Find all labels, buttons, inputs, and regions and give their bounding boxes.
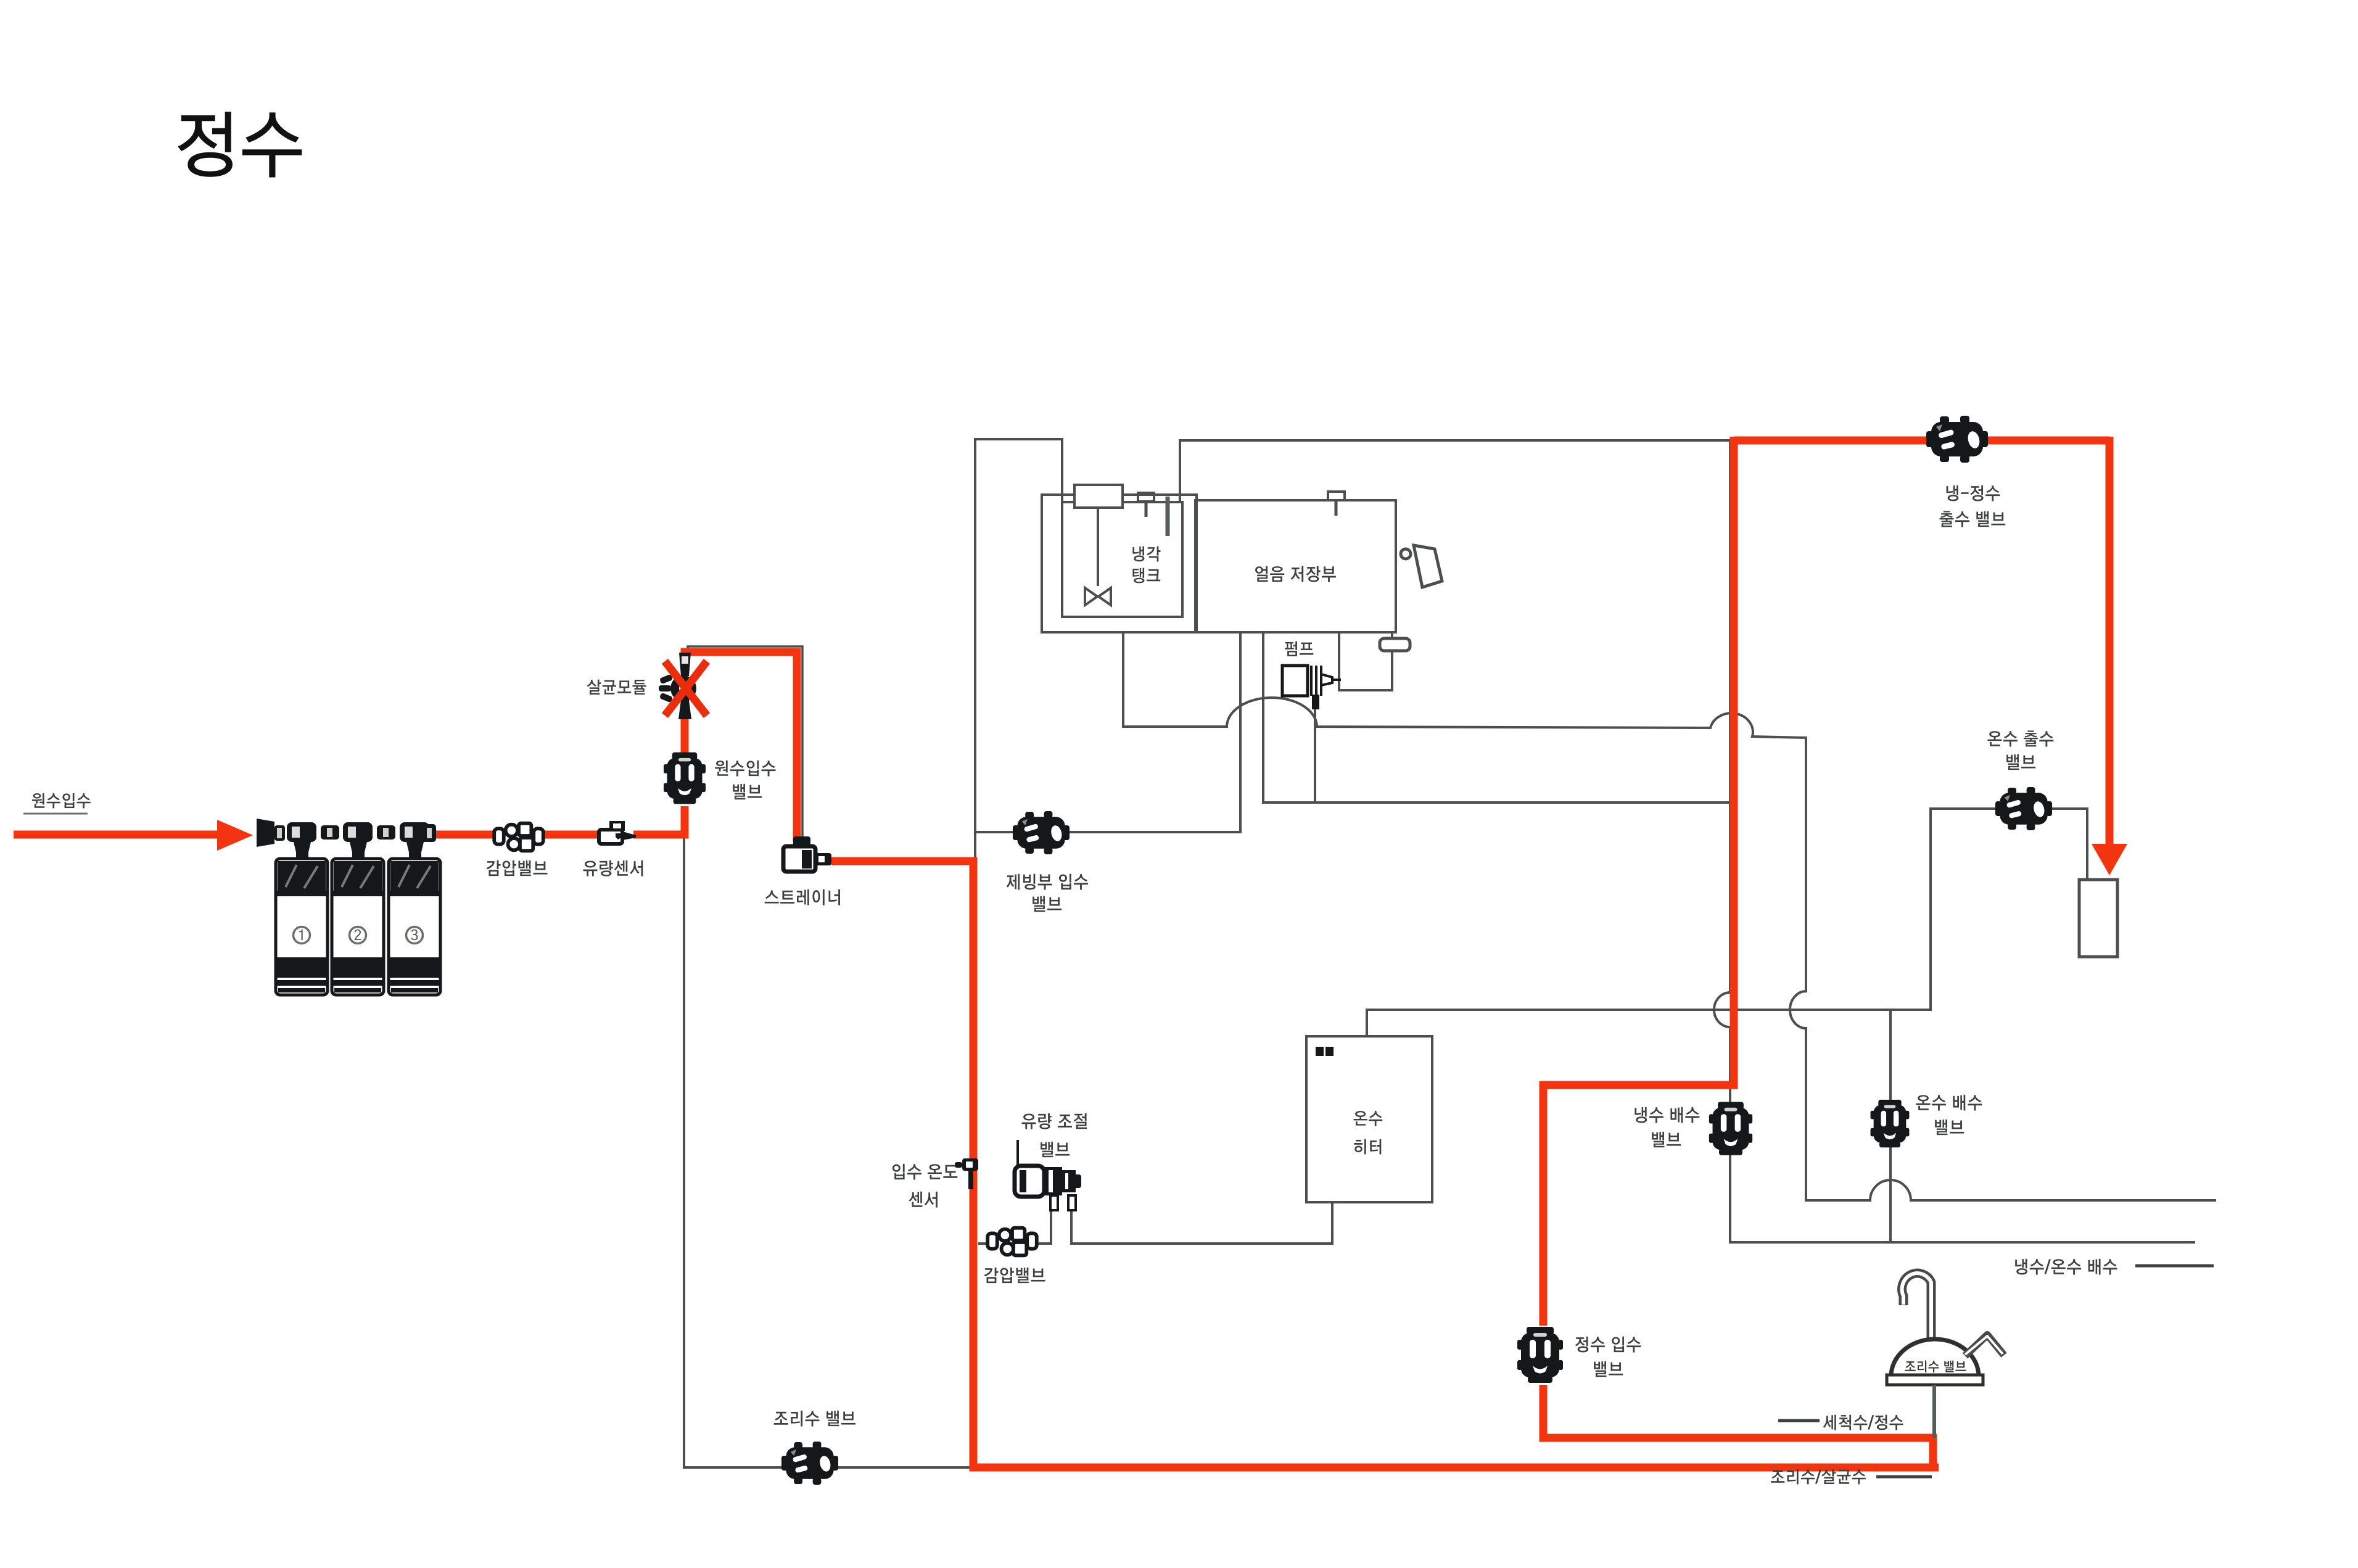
box ice storage [1195, 500, 1396, 632]
wire right drain riser with hump [1790, 737, 1806, 1202]
bolt on ice box [1328, 492, 1345, 516]
red X over sterilization module [665, 661, 707, 716]
label 원수입수 밸브 line1 [715, 761, 775, 777]
label 유량 조절 밸브 line2 [1041, 1142, 1070, 1157]
box hot water heater [1306, 1036, 1432, 1202]
filter head 3 [400, 822, 429, 859]
wire icemaker inlet horizontal [975, 831, 1240, 833]
label 제빙부 입수 밸브 line2 [1033, 896, 1062, 912]
dash after 냉수/온수 배수 [2135, 1265, 2214, 1268]
wire ice-water horizontal to red riser [1263, 801, 1731, 804]
filter cartridge 1 [276, 859, 328, 995]
filter number 2 [350, 927, 366, 944]
stirrer motor and shaft [1074, 485, 1123, 605]
label 온수 히터 line2 [1354, 1139, 1381, 1155]
flow control valve (유량 조절 밸브) [1015, 1140, 1081, 1210]
red purified valve to corner [1543, 1385, 1937, 1438]
label 펌프 [1285, 642, 1313, 656]
box cooling tank inner [1062, 502, 1182, 617]
label 입수 온도 센서 line1 [892, 1164, 957, 1180]
red cold branch horizontal [1540, 1081, 1738, 1089]
red outlet down arrow line [2106, 437, 2114, 846]
wire icemaker vertical [1239, 632, 1242, 833]
label 정수 입수 밸브 line2 [1594, 1361, 1623, 1377]
label 유량센서 [583, 860, 643, 877]
filter number 1 [294, 927, 310, 944]
strainer (스트레이너) [783, 836, 831, 872]
wire cooking water horizontal [683, 1466, 973, 1469]
label 온수 히터 line1 [1354, 1111, 1383, 1126]
valve hot drain (온수 배수 밸브) [1871, 1100, 1910, 1147]
filter manifold inlet fitting [257, 819, 285, 847]
red filters to reducer [435, 831, 498, 839]
valve purified inlet (정수 입수 밸브) [1517, 1327, 1563, 1383]
red to purified inlet valve [1540, 1081, 1548, 1326]
dash before 세척수/정수 [1778, 1419, 1820, 1422]
red valve to module [681, 719, 689, 753]
faucet gooseneck [1902, 1273, 1931, 1340]
wire cold drain vertical with hump [1714, 440, 1730, 1244]
label 감압밸브 2 [984, 1268, 1045, 1283]
faucet base plate [1887, 1375, 1983, 1385]
filter head 1 [287, 822, 316, 859]
label 입수 온도 센서 line2 [909, 1192, 938, 1208]
red top outlet line [1734, 437, 2109, 445]
wire ice-water vertical [1262, 632, 1264, 804]
wire top-left horizontal [974, 438, 1063, 440]
label 온수 출수 밸브 line1 [1988, 730, 2054, 746]
sterilization module (살균모듈) [659, 653, 696, 719]
node outlet spout rect [2079, 880, 2117, 957]
red outlet arrowhead [2092, 844, 2127, 875]
pump symbol [1282, 666, 1341, 709]
wire lower drain horizontal with hump [1805, 1180, 2216, 1200]
filter manifold outlet fitting [423, 824, 436, 842]
red strainer to long riser [831, 861, 1939, 1467]
title text 정수 (purified water) [178, 112, 302, 177]
label 얼음 저장부 [1255, 566, 1336, 582]
label 원수입수 밸브 line2 [733, 784, 762, 799]
valve raw water inlet (원수입수 밸브) [664, 753, 706, 804]
wire tank drain horizontal with arches [1123, 698, 1807, 738]
hook on ice box right [1401, 545, 1442, 587]
wire raw inlet riser [974, 438, 976, 864]
label 냉수 배수 밸브 line2 [1652, 1132, 1681, 1147]
valve cooking water (조리수 밸브) [781, 1442, 838, 1485]
pressure reducing valve 2 (감압밸브) [987, 1228, 1037, 1256]
label 냉각 탱크 line2 [1132, 568, 1160, 584]
red cold branch vertical [1730, 437, 1738, 1089]
label 감압밸브 1 [487, 860, 548, 876]
label 조리수 밸브 [774, 1411, 855, 1427]
box cooling tank outer [1042, 495, 1197, 632]
red inlet arrowhead [217, 820, 253, 851]
label 냉-정수 출수 밸브 line1 [1947, 485, 2000, 501]
wire hot water outlet run [1367, 809, 2087, 1038]
valve hot outlet (온수 출수 밸브) [1995, 787, 2052, 830]
red sensor to riser [633, 831, 688, 839]
tab on chute [1380, 638, 1410, 651]
label 원수입수 [32, 793, 91, 809]
wire pump drop vertical [1314, 708, 1316, 804]
wire ice box feed vertical [1179, 439, 1181, 501]
faucet dome [1891, 1339, 1979, 1376]
label 조리수/살균수 [1771, 1469, 1866, 1485]
label 냉-정수 출수 밸브 line2 [1940, 511, 2006, 527]
valve cold-purified outlet (냉-정수 출수 밸브) [1926, 416, 1988, 463]
label 유량 조절 밸브 line1 [1022, 1113, 1087, 1129]
red reducer to sensor [539, 831, 603, 839]
label 온수 출수 밸브 line2 [2006, 754, 2035, 770]
label 살균모듈 [587, 680, 646, 695]
filter cartridge 2 [332, 859, 384, 995]
label 정수 입수 밸브 line1 [1575, 1337, 1641, 1353]
wire hot drain vertical [1889, 1010, 1892, 1244]
flow sensor (유량센서) [599, 821, 636, 844]
label 스트레이너 [765, 889, 840, 906]
dash after 조리수/살균수 [1876, 1475, 1932, 1479]
label 냉수/온수 배수 [2015, 1259, 2117, 1275]
red faucet step [1929, 1434, 1937, 1470]
wire top horizontal to cold outlet corner [1179, 439, 1733, 442]
gray pipe edge near module [688, 646, 802, 839]
red module to top corner [685, 652, 797, 842]
inlet temperature sensor (입수 온도 센서) [955, 1158, 978, 1189]
filter cartridge 3 [389, 859, 440, 995]
box ice chute lower right [1339, 632, 1392, 690]
wire cooking water drop [683, 833, 685, 1469]
faucet handle [1965, 1335, 2004, 1356]
filter coupler 2-3 [377, 825, 395, 840]
sensor rod on tank [1166, 497, 1170, 536]
label 온수 배수 밸브 line2 [1935, 1120, 1964, 1135]
label 냉각 탱크 line1 [1132, 547, 1160, 562]
wire tank drain drop [1122, 631, 1124, 728]
label on faucet dome [1905, 1361, 1966, 1372]
label 냉수 배수 밸브 line1 [1635, 1107, 1699, 1123]
filter head 2 [343, 822, 373, 859]
filter coupler 1-2 [321, 825, 339, 840]
faucet stem [1932, 1385, 1936, 1438]
wire cooling tank feed vertical [1061, 438, 1063, 503]
red riser to valve [681, 806, 689, 838]
underline for 원수입수 [23, 813, 88, 815]
wire heater bottom to valves [978, 1201, 1332, 1244]
label 온수 배수 밸브 line1 [1916, 1095, 1982, 1111]
wire bottom drain horizontal [1729, 1241, 2195, 1244]
label 세척수/정수 [1823, 1415, 1903, 1430]
valve cold drain (냉수 배수 밸브) [1709, 1102, 1752, 1155]
red main inlet line [14, 831, 219, 839]
heater top-left mark [1316, 1047, 1334, 1056]
filter number 3 [406, 927, 423, 944]
valve icemaker inlet (제빙부 입수 밸브) [1013, 811, 1070, 854]
bolt on tank top [1138, 493, 1154, 517]
label 제빙부 입수 밸브 line1 [1007, 874, 1088, 890]
pressure reducing valve 1 (감압밸브) [494, 823, 543, 851]
